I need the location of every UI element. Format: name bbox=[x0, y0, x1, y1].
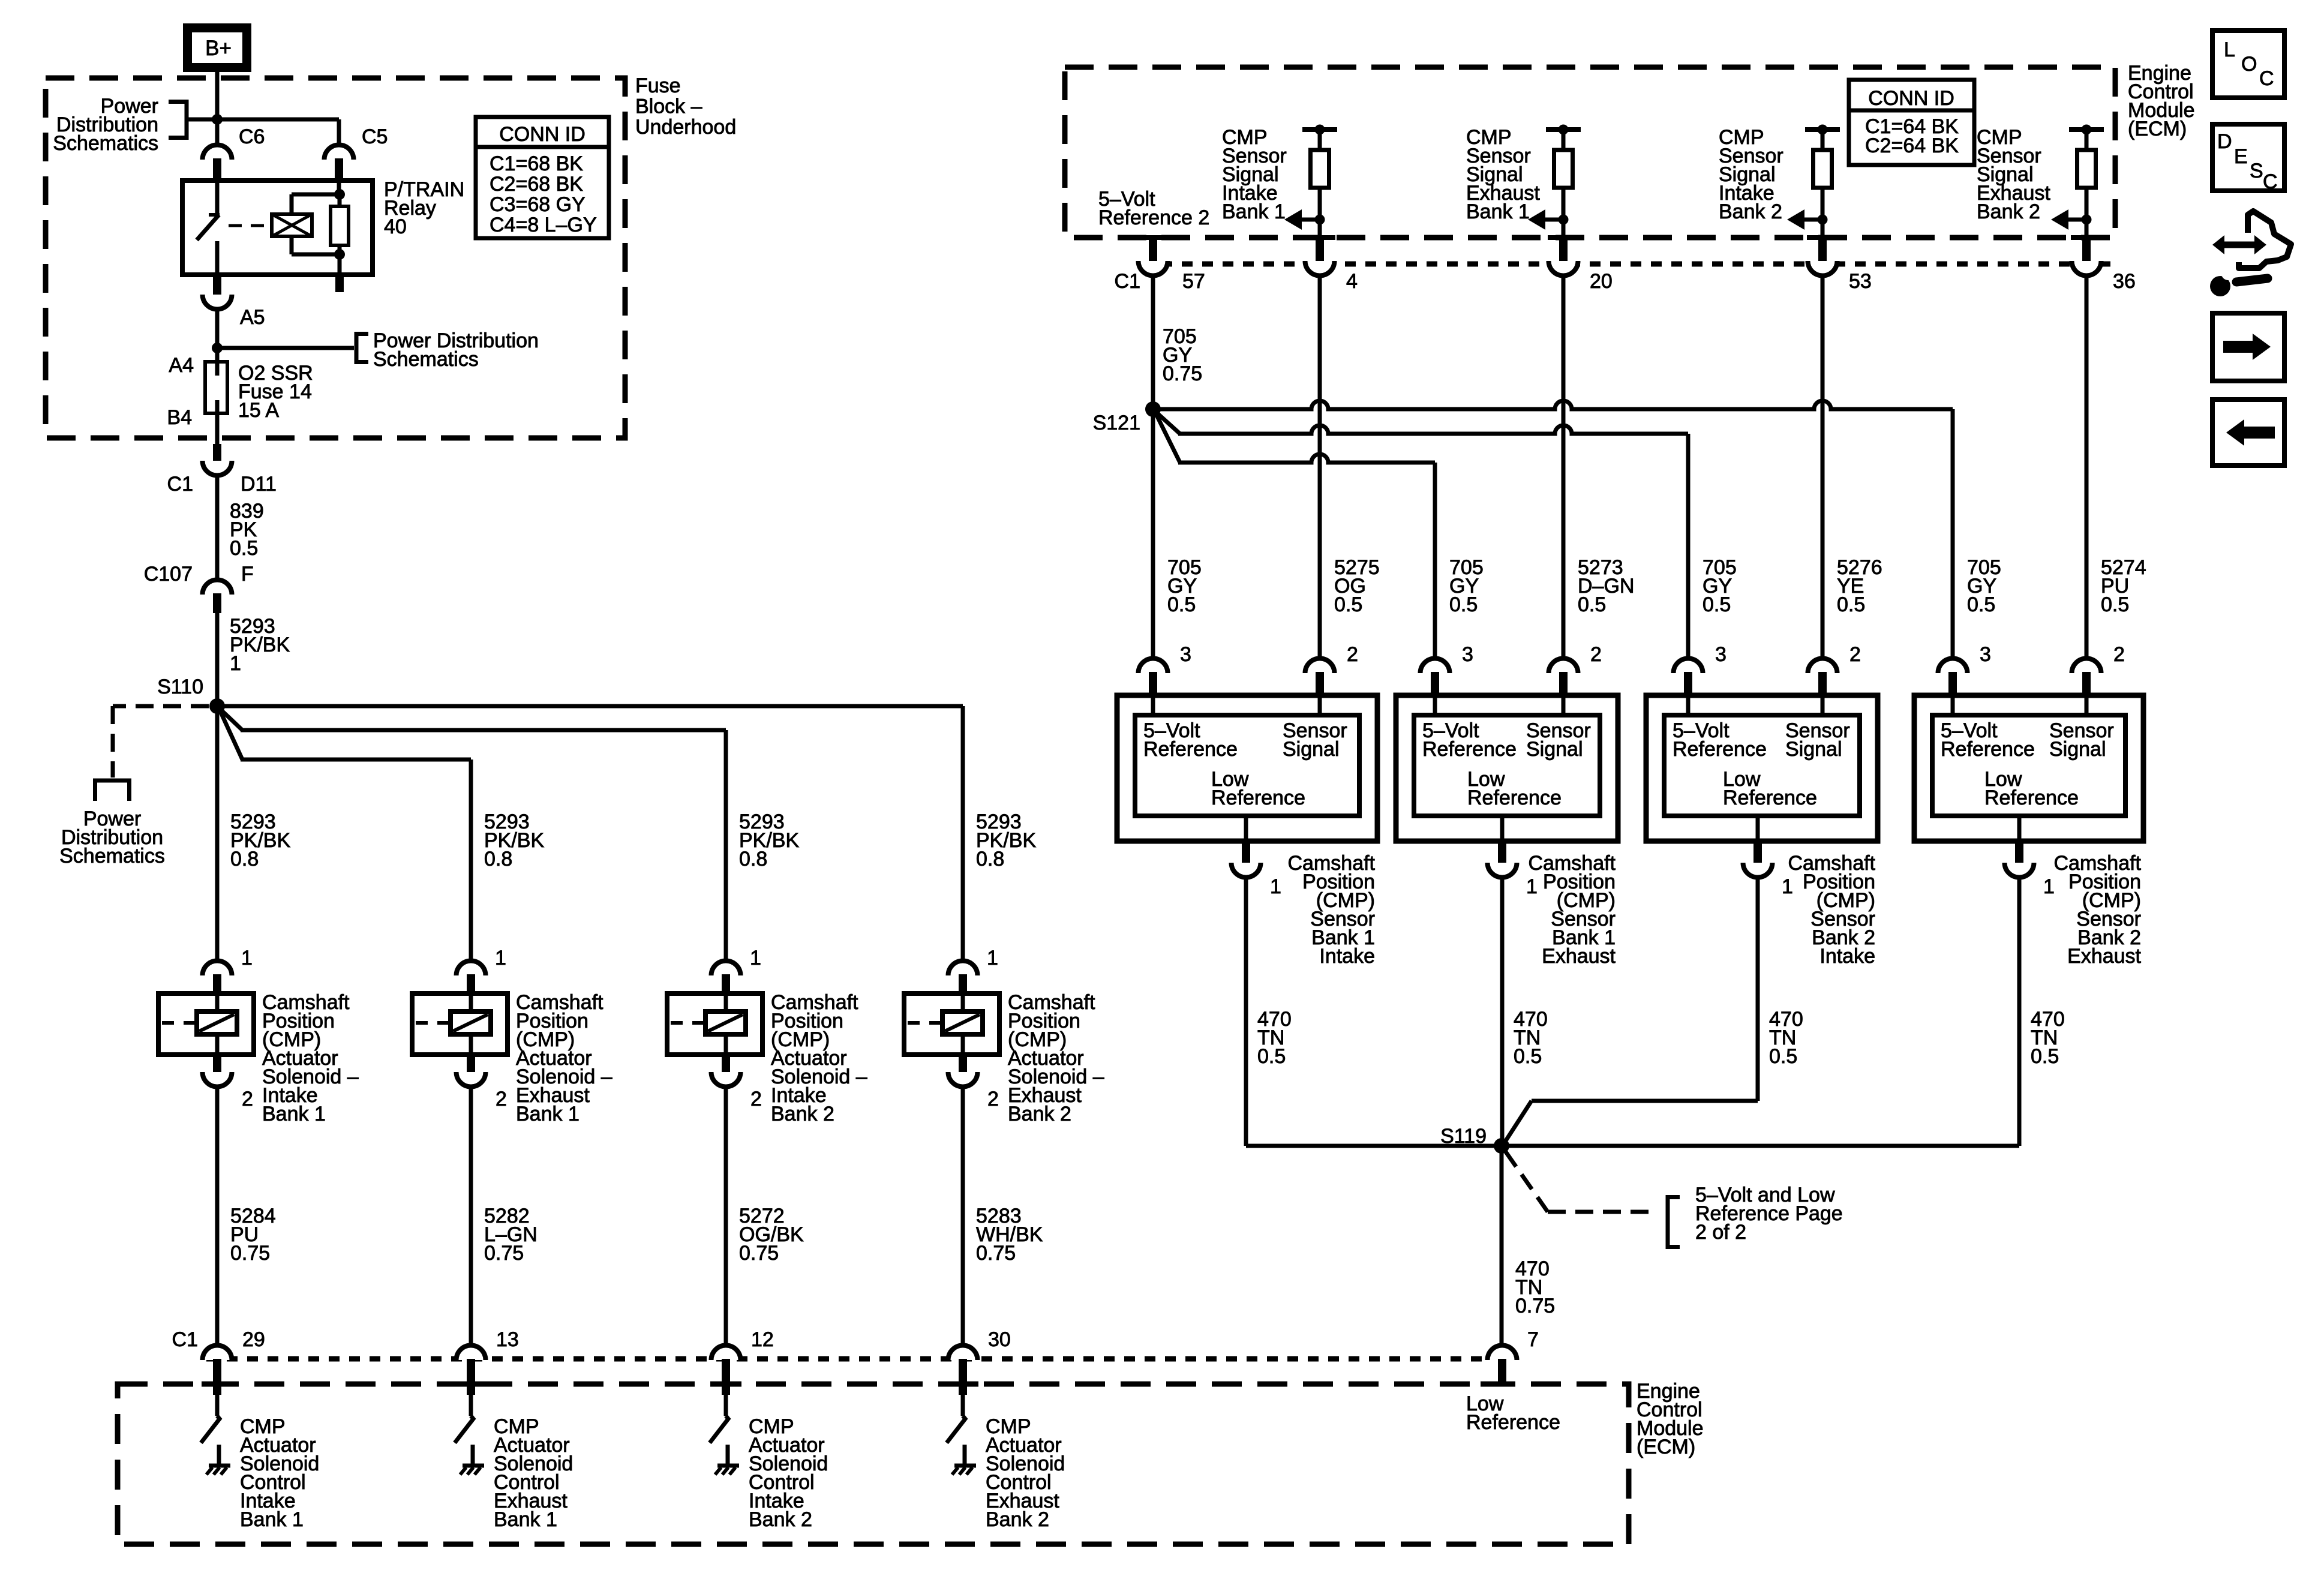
svg-text:0.5: 0.5 bbox=[1514, 1045, 1542, 1068]
svg-text:Reference: Reference bbox=[1211, 786, 1305, 809]
svg-text:Block –: Block – bbox=[635, 95, 702, 118]
svg-text:C6: C6 bbox=[239, 125, 265, 148]
wire C5 into relay to coil node bbox=[337, 181, 341, 194]
dashed stub S110 to PDS bracket bbox=[113, 706, 209, 778]
connector ECM C1 pin 53 bbox=[1807, 238, 1872, 293]
svg-text:Signal: Signal bbox=[1785, 738, 1842, 761]
fuse block - underhood dashed box bbox=[46, 78, 625, 438]
connector pin 2 of CMP actuator solenoid 3 bbox=[711, 1055, 762, 1110]
svg-text:1: 1 bbox=[1782, 875, 1793, 898]
wire fuse to C1 bbox=[215, 400, 220, 449]
svg-text:Bank 1: Bank 1 bbox=[494, 1508, 557, 1531]
svg-text:Bank 1: Bank 1 bbox=[262, 1103, 326, 1125]
relay actuation dashed link bbox=[229, 224, 267, 227]
wire solenoid 4 to ECM pin 30 bbox=[961, 1086, 965, 1347]
wire S121 branch to sensor 4 5-volt ref bbox=[1153, 401, 1953, 659]
connector ECM C1 pin 20 bbox=[1548, 238, 1613, 293]
svg-text:Bank 2: Bank 2 bbox=[1008, 1103, 1071, 1125]
wire junction to PDS bracket bbox=[217, 346, 354, 350]
label Camshaft Position (CMP) Actuator Solenoid 1 bbox=[262, 991, 359, 1125]
CMP actuator solenoid 4 (Exhaust Bank 2) box bbox=[904, 993, 999, 1055]
svg-text:Reference: Reference bbox=[1143, 738, 1238, 761]
relay P/TRAIN Relay 40 box bbox=[182, 181, 373, 275]
svg-text:S119: S119 bbox=[1440, 1125, 1487, 1148]
svg-text:Schematics: Schematics bbox=[53, 132, 158, 155]
label 5282 L–GN 0.75 bbox=[484, 1205, 538, 1265]
svg-text:2: 2 bbox=[2113, 643, 2125, 666]
connector pin 2 of CMP actuator solenoid 1 bbox=[203, 1055, 253, 1110]
label 470 TN 0.5 (sensor 4) bbox=[2031, 1008, 2065, 1068]
svg-text:0.75: 0.75 bbox=[1515, 1295, 1555, 1317]
svg-text:2: 2 bbox=[496, 1088, 507, 1110]
connector pin 3 of CMP sensor 4 bbox=[1938, 643, 1991, 715]
label 5272 OG/BK 0.75 bbox=[739, 1205, 804, 1265]
connector C5 bbox=[325, 125, 388, 181]
CMP actuator solenoid 2 (Exhaust Bank 1) box bbox=[412, 993, 508, 1055]
CMP sensor 1 (Bank 1 Intake) box bbox=[1117, 695, 1377, 841]
svg-text:C2=68 BK: C2=68 BK bbox=[490, 173, 583, 196]
svg-text:Bank 1: Bank 1 bbox=[1222, 200, 1286, 223]
icon repair instructions (hand and wrench) bbox=[2210, 211, 2291, 296]
label Camshaft Position (CMP) Sensor Bank 1 Exhaust bbox=[1529, 852, 1616, 968]
svg-text:Signal: Signal bbox=[2049, 738, 2106, 761]
svg-text:B+: B+ bbox=[205, 37, 232, 60]
svg-text:3: 3 bbox=[1462, 643, 1473, 666]
label 705 GY 0.5 (sensor 3 5-volt ref) bbox=[1703, 556, 1737, 616]
connector pin 1 of CMP sensor 3 bbox=[1743, 841, 1793, 898]
svg-text:0.8: 0.8 bbox=[739, 848, 767, 870]
connector C107 pin F bbox=[144, 563, 254, 613]
connector pin 3 of CMP sensor 3 bbox=[1674, 643, 1727, 715]
label O2 SSR Fuse 14 15 A bbox=[238, 362, 313, 422]
svg-text:1: 1 bbox=[230, 652, 241, 675]
svg-text:Underhood: Underhood bbox=[635, 116, 736, 139]
label CMP Actuator Solenoid Control Exhaust Bank 2 bbox=[986, 1415, 1065, 1531]
svg-text:1: 1 bbox=[495, 947, 506, 969]
svg-text:0.5: 0.5 bbox=[1449, 593, 1478, 616]
dashed stub S119 to off-page bracket bbox=[1506, 1152, 1655, 1212]
svg-text:Exhaust: Exhaust bbox=[2067, 945, 2141, 968]
connector ECM C1 pin 12 bbox=[710, 1328, 774, 1395]
ECM driver switch for solenoid 4 bbox=[947, 1395, 965, 1443]
relay coil (crossed box) bbox=[272, 214, 312, 236]
node sensor signal 1 bbox=[1315, 215, 1325, 225]
splice S121 bbox=[1093, 401, 1161, 434]
svg-text:(ECM): (ECM) bbox=[1637, 1436, 1695, 1458]
connector ECM C1 pin 4 bbox=[1304, 238, 1358, 293]
svg-text:Schematics: Schematics bbox=[373, 348, 479, 371]
ECM internal pull-up resistor 4 bbox=[2069, 125, 2104, 241]
ECM internal pull-up resistor 1 bbox=[1302, 125, 1337, 241]
connector A5 below relay bbox=[203, 275, 265, 329]
arrow CMP sensor signal 2 bbox=[1545, 218, 1563, 222]
label CMP Sensor Signal Intake Bank 2 bbox=[1719, 126, 1783, 223]
svg-text:57: 57 bbox=[1182, 270, 1205, 293]
label Power Distribution Schematics (top left) bbox=[53, 95, 158, 155]
ECM driver switch for solenoid 3 bbox=[710, 1395, 728, 1443]
svg-text:0.5: 0.5 bbox=[1769, 1045, 1797, 1068]
connector pin 2 of CMP actuator solenoid 2 bbox=[457, 1055, 507, 1110]
relay coil ground stub exits relay bbox=[338, 254, 342, 292]
svg-text:C4=8 L–GY: C4=8 L–GY bbox=[490, 214, 597, 236]
connector pin 2 of CMP sensor 3 bbox=[1808, 643, 1861, 715]
svg-text:Reference: Reference bbox=[1467, 786, 1562, 809]
svg-text:7: 7 bbox=[1527, 1328, 1539, 1351]
ground symbol inside ECM for solenoid 3 bbox=[715, 1445, 739, 1475]
svg-text:Reference 2: Reference 2 bbox=[1098, 206, 1209, 229]
wire S121 branch to sensor 2 5-volt ref bbox=[1155, 413, 1435, 659]
svg-text:0.75: 0.75 bbox=[230, 1242, 270, 1265]
splice S110 bbox=[157, 676, 225, 714]
connector pin 1 of CMP actuator solenoid 1 bbox=[203, 947, 253, 996]
svg-text:Reference: Reference bbox=[1723, 786, 1817, 809]
svg-text:1: 1 bbox=[2043, 875, 2055, 898]
svg-text:2: 2 bbox=[750, 1088, 762, 1110]
connector pin 3 of CMP sensor 2 bbox=[1421, 643, 1473, 715]
svg-text:CONN ID: CONN ID bbox=[499, 123, 585, 146]
connector pin 2 of CMP sensor 4 bbox=[2072, 643, 2125, 715]
svg-text:0.5: 0.5 bbox=[1703, 593, 1731, 616]
node: power distribution tap junction bbox=[212, 114, 223, 125]
icon box DESC bbox=[2212, 124, 2284, 193]
connector ECM C1 pin 13 bbox=[455, 1328, 519, 1395]
label 839 PK 0.5 bbox=[230, 500, 264, 560]
label P/TRAIN Relay 40 bbox=[384, 178, 464, 238]
svg-text:O: O bbox=[2241, 53, 2257, 76]
ECM top connector row (heavy dotted) bbox=[1141, 262, 2115, 267]
svg-text:0.5: 0.5 bbox=[1578, 593, 1606, 616]
label 5-Volt and Low Reference Page 2 of 2 bbox=[1695, 1184, 1843, 1244]
ECM bottom connector row (heavy dotted) bbox=[206, 1356, 1487, 1362]
ECM driver switch for solenoid 2 bbox=[455, 1395, 473, 1443]
label 5273 D–GN 0.5 bbox=[1578, 556, 1634, 616]
svg-text:Reference: Reference bbox=[1422, 738, 1517, 761]
engine control module (ECM) top dashed box bbox=[1065, 67, 2115, 238]
label 5276 YE 0.5 bbox=[1837, 556, 1882, 616]
svg-text:A4: A4 bbox=[169, 354, 194, 377]
svg-text:0.8: 0.8 bbox=[976, 848, 1004, 870]
connector ECM C1 pin 57 bbox=[1115, 238, 1205, 293]
svg-text:Bank 2: Bank 2 bbox=[1719, 200, 1782, 223]
engine control module (ECM) bottom dashed box bbox=[118, 1384, 1629, 1544]
svg-text:E: E bbox=[2234, 145, 2248, 168]
svg-text:S110: S110 bbox=[157, 676, 203, 698]
svg-text:40: 40 bbox=[384, 215, 407, 238]
svg-text:Reference: Reference bbox=[1673, 738, 1767, 761]
svg-text:C1=68 BK: C1=68 BK bbox=[490, 152, 583, 175]
svg-text:C3=68 GY: C3=68 GY bbox=[490, 193, 585, 216]
svg-text:Bank 1: Bank 1 bbox=[1466, 200, 1530, 223]
label Camshaft Position (CMP) Actuator Solenoid 4 bbox=[1008, 991, 1104, 1125]
label Engine Control Module (ECM) top bbox=[2128, 62, 2195, 140]
svg-text:B4: B4 bbox=[167, 406, 192, 429]
svg-text:53: 53 bbox=[1849, 270, 1872, 293]
label Camshaft Position (CMP) Sensor Bank 2 Intake bbox=[1788, 852, 1876, 968]
svg-text:1: 1 bbox=[1270, 875, 1281, 898]
wire sensor 3 low ref to S119 bbox=[1504, 877, 1758, 1143]
label CMP Sensor Signal Intake Bank 1 bbox=[1222, 126, 1287, 223]
svg-text:0.75: 0.75 bbox=[739, 1242, 779, 1265]
svg-text:C: C bbox=[2263, 170, 2278, 193]
connector pin 3 of CMP sensor 1 bbox=[1139, 643, 1191, 715]
arrow CMP sensor signal 3 bbox=[1804, 218, 1822, 222]
wire S110 branch B to solenoid 3 column bbox=[220, 709, 726, 962]
label CMP Actuator Solenoid Control Intake Bank 2 bbox=[749, 1415, 828, 1531]
node relay coil bottom bbox=[334, 249, 345, 260]
connector pin 1 of CMP sensor 2 bbox=[1488, 841, 1538, 898]
ground symbol inside ECM for solenoid 2 bbox=[460, 1445, 484, 1475]
svg-text:1: 1 bbox=[987, 947, 998, 969]
svg-text:Fuse: Fuse bbox=[635, 74, 681, 97]
svg-text:2: 2 bbox=[242, 1088, 253, 1110]
svg-text:Signal: Signal bbox=[1526, 738, 1583, 761]
connector ECM C1 pin 30 bbox=[947, 1328, 1011, 1395]
label 470 TN 0.5 (sensor 3) bbox=[1769, 1008, 1803, 1068]
svg-text:0.5: 0.5 bbox=[2101, 593, 2129, 616]
wire pin 57 down to S121 bbox=[1151, 275, 1155, 409]
connector pin 1 of CMP actuator solenoid 3 bbox=[711, 947, 761, 996]
label 5293 PK/BK 1 bbox=[230, 615, 290, 675]
relay switch contact bbox=[197, 181, 220, 275]
svg-text:Intake: Intake bbox=[1819, 945, 1875, 968]
svg-text:C2=64 BK: C2=64 BK bbox=[1865, 134, 1959, 157]
svg-text:A5: A5 bbox=[240, 306, 265, 329]
label 470 TN 0.5 (sensor 2) bbox=[1514, 1008, 1548, 1068]
ECM internal pull-up resistor 3 bbox=[1805, 125, 1840, 241]
label Camshaft Position (CMP) Sensor Bank 2 Exhaust bbox=[2054, 852, 2142, 968]
svg-text:L: L bbox=[2224, 38, 2235, 61]
wire solenoid 2 to ECM pin 13 bbox=[469, 1086, 473, 1347]
connector pin 1 of CMP actuator solenoid 4 bbox=[948, 947, 998, 996]
wire S110 straight down to solenoid 1 bbox=[215, 706, 220, 962]
svg-text:CONN ID: CONN ID bbox=[1868, 87, 1954, 110]
wire S119 down to ECM pin 7 bbox=[1500, 1146, 1504, 1347]
svg-text:0.75: 0.75 bbox=[1163, 362, 1202, 385]
svg-text:Bank 1: Bank 1 bbox=[240, 1508, 304, 1531]
label Power Distribution Schematics (fuse) bbox=[373, 329, 539, 371]
svg-text:Exhaust: Exhaust bbox=[1542, 945, 1616, 968]
label CMP Actuator Solenoid Control Exhaust Bank 1 bbox=[494, 1415, 573, 1531]
node sensor signal 3 bbox=[1818, 215, 1828, 225]
svg-text:C1: C1 bbox=[167, 473, 193, 496]
svg-text:C: C bbox=[2259, 67, 2274, 90]
svg-text:0.5: 0.5 bbox=[1257, 1045, 1286, 1068]
CMP sensor 4 (Bank 2 Exhaust) box bbox=[1914, 695, 2143, 841]
svg-text:Bank 2: Bank 2 bbox=[1977, 200, 2040, 223]
battery positive voltage B+ symbol bbox=[188, 28, 247, 68]
svg-text:0.75: 0.75 bbox=[976, 1242, 1016, 1265]
label Camshaft Position (CMP) Actuator Solenoid 3 bbox=[771, 991, 867, 1125]
ground symbol inside ECM for solenoid 4 bbox=[952, 1445, 976, 1475]
label 5-Volt Reference 2 bbox=[1098, 188, 1209, 229]
label Power Distribution Schematics (S110) bbox=[59, 807, 165, 867]
connector ECM C1 pin 36 bbox=[2071, 238, 2136, 293]
svg-text:1: 1 bbox=[241, 947, 253, 969]
CMP sensor 2 (Bank 1 Exhaust) box bbox=[1396, 695, 1618, 841]
svg-text:29: 29 bbox=[242, 1328, 265, 1351]
wire solenoid 3 to ECM pin 12 bbox=[724, 1086, 728, 1347]
svg-text:15 A: 15 A bbox=[238, 399, 279, 422]
connector pin 2 of CMP sensor 2 bbox=[1549, 643, 1602, 715]
label Camshaft Position (CMP) Actuator Solenoid 2 bbox=[516, 991, 612, 1125]
icon forward arrow bbox=[2212, 313, 2284, 381]
connector pin 1 of CMP sensor 4 bbox=[2005, 841, 2055, 898]
ground symbol inside ECM for solenoid 1 bbox=[206, 1445, 230, 1475]
svg-text:Reference: Reference bbox=[1984, 786, 2079, 809]
svg-text:Reference: Reference bbox=[1941, 738, 2035, 761]
fuse O2 SSR Fuse 14 15 A bbox=[205, 362, 227, 413]
CONN ID table (ECM) bbox=[1849, 80, 1974, 165]
connector ECM C1 pin 29 bbox=[202, 1328, 265, 1395]
resistor inside relay bbox=[331, 194, 349, 254]
svg-text:0.75: 0.75 bbox=[484, 1242, 524, 1265]
svg-text:D11: D11 bbox=[241, 473, 277, 496]
wire S110 branch C to solenoid 2 column bbox=[220, 710, 471, 962]
label 470 TN 0.75 bbox=[1515, 1257, 1555, 1317]
svg-text:D: D bbox=[2217, 130, 2232, 153]
svg-text:Bank 2: Bank 2 bbox=[771, 1103, 834, 1125]
svg-text:C1: C1 bbox=[172, 1328, 198, 1351]
label 705 GY 0.5 (sensor 1 5-volt ref) bbox=[1167, 556, 1202, 616]
svg-text:C107: C107 bbox=[144, 563, 193, 586]
label 470 TN 0.5 (sensor 1) bbox=[1257, 1008, 1292, 1068]
svg-text:13: 13 bbox=[496, 1328, 519, 1351]
wires sensor signal pins down to sensor boxes bbox=[1318, 275, 1322, 659]
connector pin 2 of CMP actuator solenoid 4 bbox=[948, 1055, 999, 1110]
svg-text:36: 36 bbox=[2113, 270, 2136, 293]
svg-text:0.8: 0.8 bbox=[484, 848, 512, 870]
svg-text:1: 1 bbox=[1526, 875, 1538, 898]
label Low Reference (ECM bottom) bbox=[1466, 1392, 1560, 1434]
svg-text:0.5: 0.5 bbox=[1967, 593, 1995, 616]
wire A5 to fuse bbox=[215, 308, 220, 376]
CMP actuator solenoid 3 (Intake Bank 2) box bbox=[667, 993, 762, 1055]
svg-text:2: 2 bbox=[1590, 643, 1602, 666]
svg-text:30: 30 bbox=[988, 1328, 1011, 1351]
connector ECM C1 pin 7 bbox=[1481, 1328, 1539, 1384]
connector C6 bbox=[203, 125, 265, 181]
arrow CMP sensor signal 4 bbox=[2068, 218, 2086, 222]
svg-text:2: 2 bbox=[1347, 643, 1358, 666]
svg-text:Reference: Reference bbox=[1466, 1411, 1560, 1434]
svg-text:0.5: 0.5 bbox=[2031, 1045, 2059, 1068]
svg-text:2: 2 bbox=[1849, 643, 1861, 666]
wire junction to C5 branch bbox=[187, 118, 339, 122]
svg-text:Bank 1: Bank 1 bbox=[516, 1103, 580, 1125]
connector pin 1 of CMP actuator solenoid 2 bbox=[457, 947, 506, 996]
off-page bracket to Power Distribution Schematics (top left) bbox=[169, 100, 187, 140]
svg-text:S: S bbox=[2250, 160, 2263, 182]
wire sensor 1 low ref to S119 bbox=[1246, 877, 1502, 1146]
svg-text:Schematics: Schematics bbox=[59, 845, 165, 867]
node A4 junction bbox=[212, 343, 223, 353]
label 5284 PU 0.75 bbox=[230, 1205, 276, 1265]
svg-text:Bank 2: Bank 2 bbox=[986, 1508, 1049, 1531]
svg-text:3: 3 bbox=[1980, 643, 1991, 666]
svg-text:S121: S121 bbox=[1093, 412, 1140, 434]
svg-text:0.5: 0.5 bbox=[1334, 593, 1362, 616]
svg-text:2: 2 bbox=[987, 1088, 999, 1110]
CONN ID table (fuse block) bbox=[476, 117, 609, 238]
label Fuse Block - Underhood bbox=[635, 74, 736, 139]
off-page bracket 5-Volt and Low Reference bbox=[1668, 1195, 1680, 1249]
wire S121 straight down to sensor 1 5-volt ref bbox=[1151, 409, 1155, 659]
svg-text:3: 3 bbox=[1180, 643, 1191, 666]
wire S121 branch to sensor 3 5-volt ref bbox=[1155, 412, 1688, 659]
wire coil bottom branch bbox=[292, 236, 340, 254]
connector C1 / D11 bbox=[167, 444, 277, 496]
splice S119 bbox=[1440, 1125, 1509, 1154]
svg-text:12: 12 bbox=[751, 1328, 774, 1351]
label 705 GY 0.5 (sensor 2 5-volt ref) bbox=[1449, 556, 1484, 616]
svg-text:0.5: 0.5 bbox=[1167, 593, 1196, 616]
label Camshaft Position (CMP) Sensor Bank 1 Intake bbox=[1288, 852, 1376, 968]
svg-text:F: F bbox=[241, 563, 254, 586]
svg-text:0.5: 0.5 bbox=[230, 537, 258, 560]
off-page fork bracket below S110 bbox=[93, 781, 131, 801]
wire solenoid 1 to ECM pin 29 bbox=[215, 1086, 220, 1347]
label CMP Actuator Solenoid Control Intake Bank 1 bbox=[240, 1415, 319, 1531]
svg-text:1: 1 bbox=[750, 947, 761, 969]
node relay coil top bbox=[334, 189, 345, 200]
svg-text:(ECM): (ECM) bbox=[2128, 118, 2187, 140]
svg-text:3: 3 bbox=[1715, 643, 1727, 666]
svg-text:0.8: 0.8 bbox=[230, 848, 259, 870]
wire sensor 2 low ref to S119 bbox=[1500, 877, 1505, 1146]
svg-text:Bank 2: Bank 2 bbox=[749, 1508, 812, 1531]
arrow CMP sensor signal 1 bbox=[1302, 218, 1320, 222]
wire coil top branch bbox=[292, 194, 340, 214]
wire B+ down to junction and C6 bbox=[215, 70, 220, 147]
svg-text:C1: C1 bbox=[1115, 270, 1140, 293]
connector pin 1 of CMP sensor 1 bbox=[1232, 841, 1281, 898]
CMP sensor 3 (Bank 2 Intake) box bbox=[1646, 695, 1878, 841]
label 705 GY 0.5 (sensor 4 5-volt ref) bbox=[1967, 556, 2001, 616]
wire 5293 PK/BK 1 to S110 bbox=[215, 613, 220, 706]
wire sensor 4 low ref to S119 bbox=[1502, 877, 2019, 1146]
wire 839 PK 0.5 bbox=[215, 475, 220, 581]
svg-text:4: 4 bbox=[1346, 270, 1358, 293]
ECM driver switch for solenoid 1 bbox=[201, 1395, 220, 1443]
svg-text:Signal: Signal bbox=[1283, 738, 1340, 761]
label 705 GY 0.75 bbox=[1163, 325, 1202, 385]
node sensor signal 2 bbox=[1559, 215, 1569, 225]
off-page bracket Power Distribution Schematics (fuse) bbox=[356, 332, 368, 364]
labels 5293 PK/BK 0.8 on four branches bbox=[230, 810, 290, 870]
label CMP Sensor Signal Exhaust Bank 1 bbox=[1466, 126, 1540, 223]
svg-text:20: 20 bbox=[1590, 270, 1613, 293]
icon box LOC bbox=[2212, 31, 2284, 98]
wire S110 branch A to solenoid 4 column bbox=[217, 706, 963, 962]
connector pin 2 of CMP sensor 1 bbox=[1305, 643, 1358, 715]
svg-text:Intake: Intake bbox=[1319, 945, 1375, 968]
svg-text:2 of 2: 2 of 2 bbox=[1695, 1221, 1746, 1244]
svg-text:C5: C5 bbox=[362, 125, 388, 148]
node sensor signal 4 bbox=[2082, 215, 2092, 225]
ECM internal pull-up resistor 2 bbox=[1546, 125, 1581, 241]
label CMP Sensor Signal Exhaust Bank 2 bbox=[1977, 126, 2050, 223]
label Engine Control Module (ECM) bottom bbox=[1637, 1380, 1704, 1458]
label 5275 OG 0.5 bbox=[1334, 556, 1380, 616]
CMP actuator solenoid 1 (Intake Bank 1) box bbox=[158, 993, 254, 1055]
label 5283 WH/BK 0.75 bbox=[976, 1205, 1043, 1265]
icon back arrow bbox=[2212, 400, 2284, 466]
svg-text:0.5: 0.5 bbox=[1837, 593, 1865, 616]
label 5274 PU 0.5 bbox=[2101, 556, 2146, 616]
